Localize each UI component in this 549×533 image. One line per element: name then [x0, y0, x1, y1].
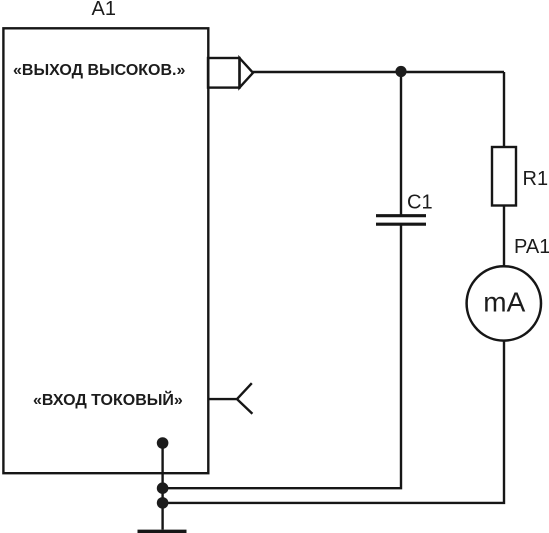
wire capacitor bottom down and left to node B — [163, 225, 401, 488]
wire top horizontal: plug to right corner — [253, 71, 504, 73]
capacitor C1 bottom plate — [376, 223, 426, 226]
wire meter bottom down and left to node C — [163, 341, 504, 503]
connector XS1 plug rectangle (high-voltage output) — [208, 58, 240, 88]
connector XS2 fork (current input) — [208, 383, 252, 414]
svg-text:PA1: PA1 — [514, 236, 549, 258]
svg-text:R1: R1 — [523, 168, 549, 190]
svg-text:«ВХОД ТОКОВЫЙ»: «ВХОД ТОКОВЫЙ» — [33, 390, 183, 409]
wire right branch down to resistor — [503, 72, 505, 147]
svg-text:C1: C1 — [407, 192, 433, 214]
node D junction dot (inside box) — [157, 437, 169, 449]
svg-text:A1: A1 — [92, 0, 116, 20]
capacitor C1 top plate — [376, 214, 426, 217]
svg-text:«ВЫХОД ВЫСОКОВ.»: «ВЫХОД ВЫСОКОВ.» — [13, 62, 185, 79]
node A junction dot — [395, 66, 406, 77]
wire resistor to meter — [503, 206, 505, 267]
connector XS1 plug triangle — [240, 58, 254, 88]
ground bar — [138, 530, 187, 533]
svg-text:mA: mA — [483, 287, 525, 318]
milliammeter PA1 circle — [467, 266, 541, 340]
wire capacitor branch down from node A — [400, 72, 402, 215]
block A1 box — [3, 28, 208, 473]
node B junction dot — [157, 482, 169, 494]
node C junction dot — [157, 497, 169, 509]
resistor R1 body — [492, 147, 516, 206]
wire ground branch inside box down to ground — [161, 443, 163, 530]
